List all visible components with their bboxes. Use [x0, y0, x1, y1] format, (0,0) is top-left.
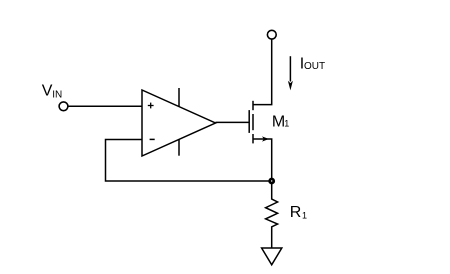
svg-text:R: R [290, 204, 302, 221]
svg-text:OUT: OUT [304, 61, 325, 72]
svg-text:IN: IN [52, 90, 62, 101]
svg-text:1: 1 [302, 210, 307, 220]
svg-text:1: 1 [284, 118, 289, 128]
svg-text:V: V [42, 83, 53, 100]
